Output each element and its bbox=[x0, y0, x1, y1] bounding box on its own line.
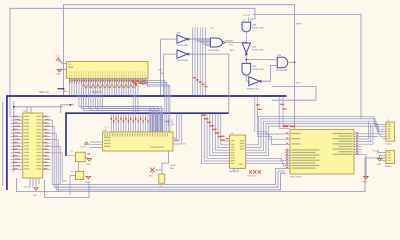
bus tap pair B to FPGA top bbox=[279, 97, 290, 129]
svg-text:A16: A16 bbox=[158, 68, 161, 71]
IC U8 right pin taps from AD bus bbox=[173, 114, 182, 144]
GND right of X1 bbox=[87, 159, 91, 162]
IC U6 body bbox=[230, 135, 246, 168]
crystal Y1 left wire bbox=[70, 176, 76, 196]
red net labels on U1 right bundle bbox=[132, 81, 135, 82]
svg-text:SN74: SN74 bbox=[230, 50, 235, 52]
GND right of Y1 bbox=[86, 176, 90, 179]
IC U2 right pin wires bbox=[42, 116, 51, 118]
GND symbol at U1 bbox=[57, 69, 61, 72]
NAND U4A output wire from U3A bbox=[189, 38, 210, 40]
AND gate U5B (vertical) bbox=[242, 63, 251, 75]
IC U2 left red labels bbox=[13, 116, 18, 117]
bus AB[0..19] horizontal bbox=[7, 95, 287, 97]
inverter U2A (pointing down) bbox=[242, 43, 250, 53]
resistor R1 body bbox=[159, 174, 165, 183]
VCC3 symbol left of U8 bbox=[85, 142, 89, 144]
bottom wire 3 bbox=[56, 173, 286, 190]
header J2 wires bbox=[378, 150, 381, 158]
svg-text:EP1C3T144: EP1C3T144 bbox=[291, 176, 303, 178]
U7A output wire bbox=[289, 61, 295, 63]
svg-text:GND: GND bbox=[363, 182, 368, 184]
svg-text:SN74HC04D: SN74HC04D bbox=[177, 60, 189, 62]
wire IC-B top stub A bbox=[26, 107, 28, 114]
upper FPGA left-pin feed wires bbox=[257, 132, 285, 134]
IC U1 8088 body bbox=[67, 61, 149, 78]
IC U1 red pin numbers bbox=[70, 79, 71, 81]
svg-text:VCC: VCC bbox=[55, 56, 60, 58]
svg-text:B1: B1 bbox=[184, 144, 186, 146]
GND right of U9 bbox=[362, 155, 367, 176]
bottom wire 6 (left stub) bbox=[62, 180, 66, 182]
bottom wire 4 (to header J2) bbox=[16, 158, 382, 192]
svg-text:SN74HC08D: SN74HC08D bbox=[276, 70, 288, 72]
junction near U2 top bbox=[70, 104, 72, 106]
svg-text:R2: R2 bbox=[160, 186, 162, 188]
svg-text:U3A: U3A bbox=[177, 32, 182, 35]
wire loop around bus end bbox=[272, 87, 316, 101]
wire left edge vertical bbox=[2, 102, 4, 186]
IC U2 right red labels bbox=[43, 116, 48, 117]
svg-text:GND: GND bbox=[56, 74, 61, 76]
IC U8 top-right pin wires bbox=[155, 113, 157, 132]
bus AD[0..15] horizontal bbox=[66, 112, 229, 114]
svg-text:C9: C9 bbox=[173, 124, 175, 126]
U5B output wire bbox=[246, 75, 249, 81]
NAND U4A output wire bbox=[224, 42, 246, 44]
header J1 pin stubs bbox=[383, 123, 386, 125]
U1 middle pins to bus AB bbox=[104, 84, 106, 95]
IC U1 inner pin texts bbox=[68, 71, 71, 73]
junction U5A/U4A outputs bbox=[245, 42, 247, 44]
svg-text:U7A: U7A bbox=[277, 54, 282, 57]
IC U8 body bbox=[103, 132, 174, 151]
IC U2 body bbox=[23, 113, 43, 178]
red labels on U8 top pins bbox=[111, 118, 112, 121]
svg-text:U2A: U2A bbox=[252, 46, 257, 49]
oscillator X1 body bbox=[76, 152, 86, 162]
GND under U2 bbox=[34, 188, 38, 191]
header J2 pin numbers bbox=[388, 152, 390, 153]
U2B output wire bbox=[262, 66, 278, 82]
svg-text:RST1: RST1 bbox=[296, 82, 301, 84]
header J2 pin stubs bbox=[381, 152, 386, 154]
IC U9 body bbox=[290, 130, 354, 175]
svg-text:GND: GND bbox=[377, 164, 382, 166]
wires from U9 right rising to J1 bundle bbox=[362, 122, 369, 139]
inverter U3A input wire bbox=[160, 39, 177, 95]
svg-text:Header: Header bbox=[386, 142, 393, 145]
U1 last pins bend to U8 far right bbox=[140, 78, 165, 132]
svg-text:U5A: U5A bbox=[252, 24, 257, 27]
red staircase labels on U6 taps bbox=[201, 115, 205, 117]
U5A output to U2A bbox=[245, 32, 247, 43]
IC U8 left pin wires bbox=[90, 142, 103, 147]
bus AB left vertical leg bbox=[6, 95, 8, 190]
red labels above FPGA bbox=[283, 126, 288, 128]
svg-text:74HC245: 74HC245 bbox=[229, 171, 238, 173]
IC U8 inner top pin names bbox=[105, 133, 106, 136]
wire net B (RESET loop: IC-A area up, across top, down to FPGA) bbox=[64, 5, 295, 130]
AND gate U7A bbox=[277, 57, 287, 68]
U1 pin bundle routed below bus to U8 right pins bbox=[79, 84, 150, 132]
NAND gate U4A bbox=[210, 38, 222, 47]
wire left vertical feeder bbox=[13, 101, 15, 172]
red net labels under U1 pins bbox=[82, 85, 84, 87]
red mark above X1 gnd bbox=[87, 153, 90, 154]
svg-text:SN74HC04D: SN74HC04D bbox=[177, 45, 189, 47]
svg-text:GND: GND bbox=[149, 175, 154, 177]
svg-text:Header: Header bbox=[386, 165, 393, 168]
NAND U4A input wires and bus taps bbox=[192, 28, 210, 96]
junction on net B near IC A bbox=[63, 88, 65, 90]
inverter U3B input wire bbox=[164, 54, 177, 95]
svg-text:Cry Rst: Cry Rst bbox=[170, 164, 176, 167]
AND gate U5A (vertical) bbox=[242, 22, 251, 32]
IC U2 inner pin names bbox=[24, 116, 29, 117]
svg-text:U5B: U5B bbox=[252, 66, 257, 68]
net flag BOOT near U1 bbox=[58, 88, 64, 89]
bottom wire 2 bbox=[54, 171, 284, 187]
red mark left of R1 bbox=[150, 168, 155, 174]
U6 to FPGA wires bbox=[246, 158, 285, 160]
wire net C (BOOT1 across to right header) bbox=[253, 14, 361, 118]
VCC symbol at U1 bbox=[56, 58, 60, 60]
U1 pin bundle to bus AB (left group) bbox=[69, 84, 71, 95]
svg-text:GND: GND bbox=[85, 182, 90, 184]
IC U9 red pin numbers bbox=[286, 132, 288, 133]
wires U9 right rows to J1 pins bbox=[362, 134, 384, 137]
GND at J2 bbox=[377, 158, 381, 161]
svg-text:VCC3: VCC3 bbox=[24, 187, 29, 189]
wire horizontal upper-left bbox=[14, 106, 63, 108]
IC U9 right pin stubs bbox=[354, 133, 362, 135]
oscillator X1 wires bbox=[66, 156, 88, 172]
wire corner above U2 bbox=[61, 105, 74, 113]
svg-text:Y1: Y1 bbox=[71, 172, 73, 174]
red labels on bus taps above AD bus bbox=[131, 80, 133, 81]
branch to U7A input bbox=[246, 59, 270, 62]
header J1 body bbox=[386, 122, 394, 141]
IC U6 top-left control pin bbox=[224, 140, 230, 142]
header J2 body bbox=[386, 151, 394, 164]
bus tap pair A to FPGA feeds bbox=[255, 97, 257, 134]
red marks under U6 bbox=[249, 170, 252, 173]
AD bus taps descending to U6 bbox=[202, 114, 230, 164]
svg-text:GND: GND bbox=[86, 164, 91, 166]
bottom wire 1 bbox=[52, 169, 284, 185]
svg-text:VCC3: VCC3 bbox=[81, 147, 86, 149]
svg-text:AB[0..19]: AB[0..19] bbox=[39, 91, 49, 94]
IC U9 left pin stubs bbox=[285, 133, 291, 135]
svg-text:MEMRST: MEMRST bbox=[225, 41, 234, 43]
inverter U2B (pointing right) bbox=[249, 77, 260, 86]
svg-text:VCC3: VCC3 bbox=[373, 151, 378, 153]
junction on net B at gate U7A output bbox=[294, 61, 296, 63]
svg-text:SN74HC30D: SN74HC30D bbox=[208, 50, 220, 52]
IC U2 bottom stubs bbox=[30, 178, 39, 187]
svg-text:A17: A17 bbox=[161, 72, 164, 75]
svg-text:X1: X1 bbox=[71, 151, 73, 153]
power pin wires of U1 bbox=[59, 62, 67, 70]
U6 to header J1 bundle bbox=[246, 116, 383, 145]
IC U1 pin stubs bbox=[69, 78, 71, 84]
U1 rightmost pins to bus AD bbox=[132, 84, 134, 113]
header J1 pin numbers bbox=[388, 124, 390, 125]
red labels on U4A bus taps bbox=[193, 77, 196, 79]
svg-text:SN74HC1G04: SN74HC1G04 bbox=[252, 49, 264, 51]
svg-text:Y Y Y: Y Y Y bbox=[104, 127, 110, 129]
bottom wire 5 (U-loop near Y1) bbox=[45, 180, 89, 198]
svg-text:SN74HC1G08: SN74HC1G08 bbox=[252, 27, 264, 29]
crystal Y1 body bbox=[76, 171, 84, 179]
junction on U2A-U5B net bbox=[245, 59, 247, 61]
bus AD left leg bbox=[65, 112, 67, 155]
resistor R1 wires bbox=[155, 151, 168, 174]
IC U8 top pin wires from AD bus bbox=[110, 114, 112, 133]
svg-text:A19: A19 bbox=[64, 90, 67, 93]
svg-text:SN74HC1G04: SN74HC1G04 bbox=[247, 88, 259, 90]
VCC3 cluster wires bbox=[169, 119, 173, 126]
junction upper-left bbox=[13, 106, 15, 108]
wire net A (top-left loop to gate U5A input) bbox=[10, 8, 255, 117]
svg-text:8088: 8088 bbox=[68, 67, 74, 69]
wire IC-B top stub B bbox=[30, 107, 32, 114]
IC U6 bottom stubs bbox=[234, 168, 238, 172]
svg-text:SN74HC1G08: SN74HC1G08 bbox=[252, 69, 264, 71]
inverter U3A bbox=[177, 35, 187, 43]
IC U2 right bundle descending bbox=[51, 120, 53, 185]
svg-text:Wdg: Wdg bbox=[170, 168, 174, 170]
svg-text:RESET: RESET bbox=[296, 24, 303, 26]
IC U2 left pin wires bbox=[10, 116, 23, 118]
U2A output to U5B bbox=[245, 55, 247, 63]
inverter U3B bbox=[177, 50, 187, 58]
IC U9 inner pin names bbox=[292, 133, 301, 134]
svg-text:GND VCC: GND VCC bbox=[248, 176, 257, 178]
inverter U3B output wire to bus AD corner bbox=[189, 54, 229, 113]
svg-text:BOOT0: BOOT0 bbox=[244, 15, 250, 17]
U7A input wire upper bbox=[271, 59, 278, 61]
svg-text:GND: GND bbox=[33, 195, 38, 197]
IC U8 inner left pin names bbox=[104, 137, 111, 138]
IC U6 inner pin names bbox=[231, 144, 235, 145]
